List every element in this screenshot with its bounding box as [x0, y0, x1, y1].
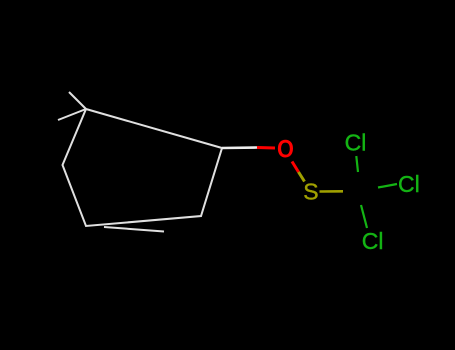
- bond O-S olive half: [299, 172, 305, 182]
- svg-text:S: S: [303, 179, 318, 205]
- bond C-Cl right green half: [378, 184, 397, 188]
- apex methyl prong left: [58, 109, 86, 120]
- bond C-Cl bottom green half: [361, 205, 367, 228]
- svg-text:Cl: Cl: [398, 171, 420, 197]
- svg-text:Cl: Cl: [345, 130, 367, 156]
- bond to O (red half): [257, 146, 275, 150]
- bond S-C olive half: [320, 190, 344, 193]
- svg-text:Cl: Cl: [362, 228, 384, 254]
- methyl stub bottom: [104, 227, 164, 232]
- cyclohexane ring: [63, 109, 223, 226]
- svg-text:O: O: [277, 135, 294, 163]
- apex methyl prong up: [69, 92, 86, 109]
- bond C-Cl top green half: [356, 156, 358, 172]
- bond O-S red half: [292, 162, 299, 173]
- bond ring to O (gray half): [222, 146, 257, 149]
